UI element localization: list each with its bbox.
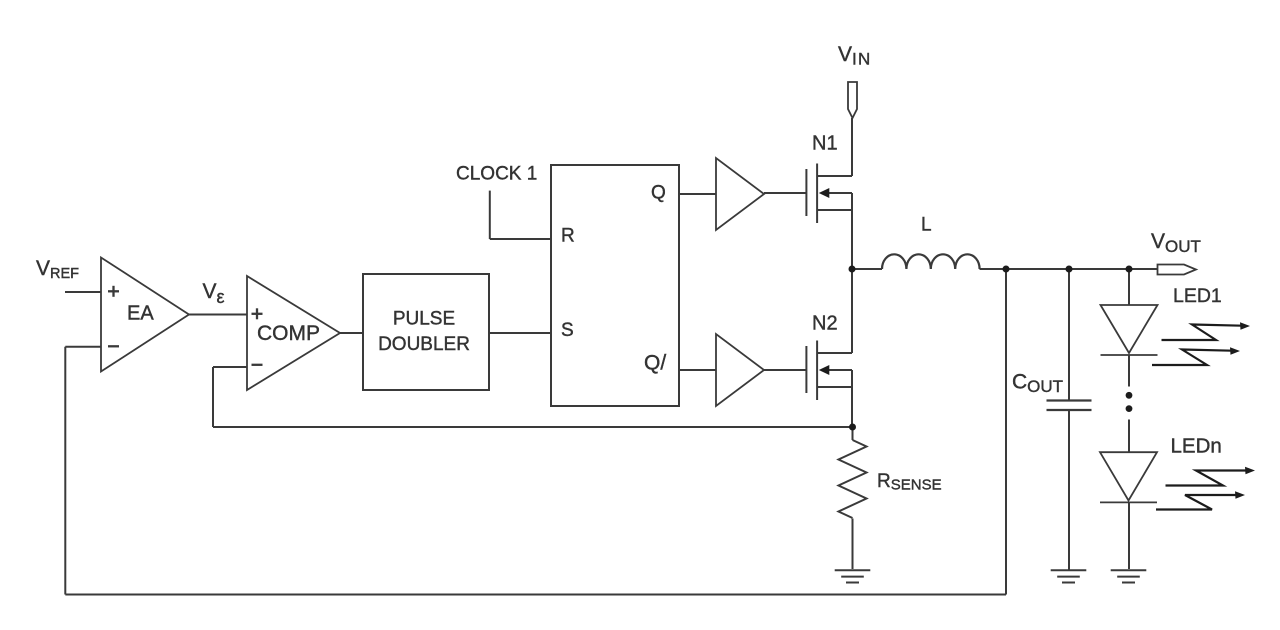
wire VOUT node to COUT: [1068, 269, 1070, 400]
resistor RSENSE: [839, 440, 867, 518]
wire feedback left vertical: [64, 347, 66, 595]
LEDn light arrows: [1156, 471, 1247, 510]
svg-text:COUT: COUT: [1012, 371, 1063, 397]
terminal VIN: [848, 82, 857, 118]
svg-text:N1: N1: [812, 133, 838, 155]
wire Q/ output to buffer: [679, 369, 716, 371]
wire EA inverting input lead: [65, 346, 101, 348]
svg-text:N2: N2: [812, 313, 838, 335]
svg-text:L: L: [921, 215, 932, 236]
wire inductor to VOUT terminal: [980, 268, 1158, 270]
wire LED1 cathode to dots: [1128, 355, 1130, 387]
svg-text:Q/: Q/: [644, 352, 666, 375]
wire feedback right vertical from VOUT node: [1005, 269, 1007, 595]
wire COMP output to pulse doubler: [340, 332, 363, 334]
buffer driver 1: [716, 158, 764, 230]
node COUT junction: [1066, 266, 1073, 273]
wire N2 source to sense node: [851, 370, 853, 427]
svg-text:RSENSE: RSENSE: [877, 471, 942, 494]
capacitor COUT: [1047, 401, 1092, 411]
wire sense node to RSENSE: [852, 427, 854, 440]
wire RSENSE to ground: [852, 519, 854, 570]
transistor N2: [806, 341, 852, 401]
ground at COUT: [1051, 570, 1087, 582]
diode LED1: [1101, 305, 1158, 355]
node LED junction: [1126, 266, 1133, 273]
node switch junction: [849, 266, 856, 273]
LED1 light arrows: [1152, 325, 1242, 366]
svg-text:LEDn: LEDn: [1171, 435, 1222, 458]
wire buffer to N1 gate: [764, 192, 806, 194]
svg-text:COMP: COMP: [257, 322, 320, 345]
wire current sense feedback horizontal: [213, 426, 853, 428]
svg-text:VIN: VIN: [838, 43, 871, 69]
svg-text:R: R: [561, 226, 575, 247]
ground at RSENSE: [835, 570, 871, 582]
diode LEDn: [1100, 452, 1157, 502]
wire CLOCK 1 vertical: [489, 191, 491, 239]
node LED string dots: [1126, 392, 1133, 412]
wire VIN to N1 drain: [851, 118, 853, 176]
transistor N1: [806, 164, 852, 224]
wire dots to LEDn anode: [1128, 420, 1130, 453]
wire COMP inverting lead: [213, 366, 247, 368]
wire VREF lead: [65, 291, 101, 293]
svg-text:S: S: [561, 320, 574, 341]
buffer driver 2: [716, 334, 764, 406]
wire Q output to buffer: [679, 193, 716, 195]
svg-text:DOUBLER: DOUBLER: [378, 334, 470, 355]
inductor L: [882, 254, 980, 269]
wire COMP inverting vertical: [212, 367, 214, 427]
svg-text:LED1: LED1: [1173, 285, 1222, 307]
wire COUT to ground: [1068, 410, 1070, 570]
svg-text:VOUT: VOUT: [1151, 230, 1201, 256]
svg-text:EA: EA: [127, 303, 154, 325]
wire LEDn cathode to ground: [1128, 503, 1130, 570]
wire pulse doubler output to S input: [489, 332, 551, 334]
block PULSE DOUBLER: [363, 274, 489, 390]
comparator COMP: [247, 276, 340, 390]
svg-text:CLOCK 1: CLOCK 1: [456, 164, 537, 185]
svg-text:VREF: VREF: [36, 257, 79, 282]
terminal VOUT: [1158, 265, 1197, 275]
svg-text:PULSE: PULSE: [393, 309, 455, 330]
wire EA output to COMP (node Verror): [189, 314, 247, 316]
ground at LEDn: [1111, 570, 1147, 582]
svg-text:Vε: Vε: [203, 280, 225, 307]
SR latch U1: [551, 165, 679, 406]
wire feedback bottom horizontal: [65, 594, 1006, 596]
node sense junction: [849, 424, 856, 431]
wire buffer to N2 gate: [764, 369, 806, 371]
op-amp EA: [101, 258, 189, 372]
wire CLOCK 1 to R input: [490, 238, 551, 240]
svg-text:Q: Q: [651, 183, 666, 204]
wire N1 source to N2 drain (switch node): [851, 193, 853, 353]
wire switch node to inductor: [852, 268, 882, 270]
wire VOUT node to LED1 anode: [1128, 269, 1130, 305]
node VOUT junction: [1003, 266, 1010, 273]
